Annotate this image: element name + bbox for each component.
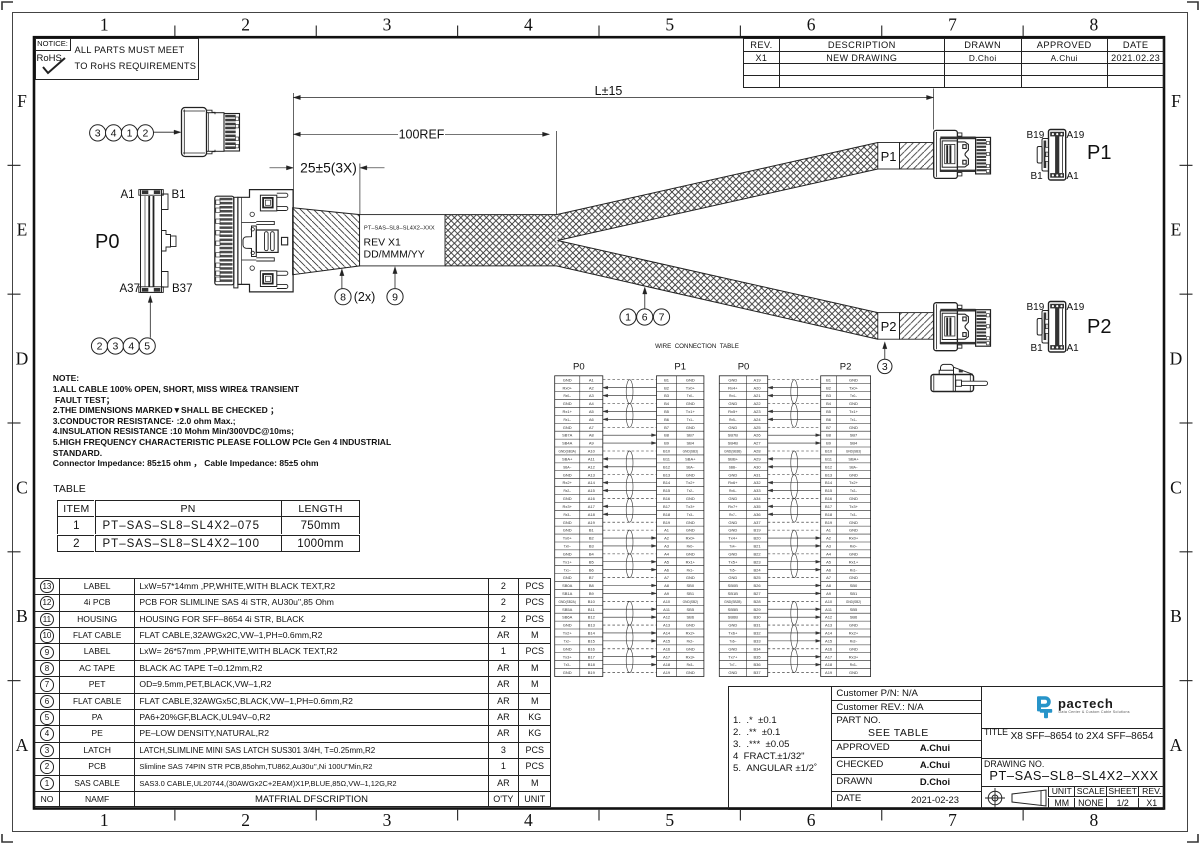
svg-text:Rx0–: Rx0–: [687, 545, 695, 549]
svg-text:A15: A15: [825, 639, 833, 644]
svg-text:A18: A18: [588, 512, 596, 517]
svg-text:B4: B4: [589, 551, 595, 556]
svg-text:E: E: [1171, 220, 1182, 240]
svg-text:Tx1–: Tx1–: [564, 568, 571, 572]
svg-text:SB4: SB4: [687, 441, 695, 446]
pin label B19 (P1): [1027, 130, 1045, 142]
svg-text:D: D: [16, 349, 29, 369]
svg-text:B11: B11: [825, 457, 833, 462]
svg-text:GND: GND: [849, 377, 858, 382]
svg-text:6: 6: [807, 810, 816, 830]
svg-text:SB5B: SB5B: [728, 607, 739, 612]
balloon group 3-4-1-2 with leader: [90, 125, 106, 141]
pin label B1 (P2): [1031, 343, 1043, 355]
svg-text:Rx1–: Rx1–: [687, 568, 695, 572]
svg-text:A9: A9: [589, 441, 595, 446]
svg-text:GND: GND: [686, 551, 695, 556]
svg-text:B2: B2: [589, 536, 595, 541]
balloon 8 (2x) with leader: [335, 289, 351, 305]
wires P0-P2: [768, 380, 821, 673]
svg-text:SB6: SB6: [687, 615, 695, 620]
svg-text:Rx4+: Rx4+: [728, 385, 738, 390]
svg-text:A1: A1: [664, 528, 670, 533]
svg-text:A3: A3: [826, 544, 832, 549]
svg-text:GND(SB3): GND(SB3): [683, 450, 698, 454]
projection symbol: [984, 787, 1054, 809]
svg-text:A29: A29: [753, 457, 761, 462]
svg-text:Tx1+: Tx1+: [849, 409, 859, 414]
svg-text:SB6: SB6: [850, 615, 858, 620]
svg-text:GND: GND: [686, 623, 695, 628]
svg-text:SB4: SB4: [850, 441, 858, 446]
label P1: [1087, 142, 1111, 164]
svg-text:A24: A24: [753, 417, 761, 422]
svg-text:SB1A: SB1A: [562, 591, 573, 596]
svg-text:100REF: 100REF: [399, 127, 445, 141]
svg-text:B13: B13: [663, 472, 671, 477]
svg-text:SB7: SB7: [850, 433, 858, 438]
svg-text:GND(SB3): GND(SB3): [846, 450, 861, 454]
svg-text:GND(SB2A): GND(SB2A): [559, 600, 576, 604]
drawing number field: [984, 759, 1044, 770]
svg-text:A16: A16: [825, 646, 833, 651]
svg-text:SB0A: SB0A: [562, 583, 573, 588]
svg-text:2: 2: [241, 15, 250, 35]
svg-text:A7: A7: [826, 575, 832, 580]
svg-text:SB7: SB7: [687, 433, 695, 438]
svg-text:SB1: SB1: [687, 591, 695, 596]
svg-text:(2x): (2x): [354, 290, 376, 304]
svg-text:P0: P0: [738, 362, 750, 373]
svg-text:A4: A4: [589, 401, 595, 406]
svg-text:A35: A35: [753, 504, 761, 509]
svg-text:A19: A19: [825, 670, 833, 675]
svg-text:7: 7: [659, 312, 665, 324]
svg-text:A28: A28: [753, 449, 761, 454]
pin label A19 (P1): [1067, 130, 1085, 142]
svg-text:B5: B5: [826, 409, 832, 414]
svg-text:A11: A11: [663, 607, 671, 612]
svg-text:GND: GND: [563, 670, 572, 675]
svg-text:B4: B4: [664, 401, 670, 406]
svg-text:P1: P1: [881, 149, 897, 164]
svg-text:A1: A1: [826, 528, 832, 533]
svg-text:1: 1: [100, 15, 109, 35]
svg-text:B19: B19: [588, 670, 596, 675]
svg-text:SB5: SB5: [850, 607, 858, 612]
corner trim marks: [2, 2, 13, 10]
svg-text:A32: A32: [753, 480, 761, 485]
svg-text:GND: GND: [563, 401, 572, 406]
svg-text:B19: B19: [663, 520, 671, 525]
svg-text:GND: GND: [563, 528, 572, 533]
label P0: [95, 231, 119, 253]
svg-text:Rx7+: Rx7+: [728, 504, 738, 509]
svg-text:P0: P0: [573, 362, 585, 373]
svg-text:A26: A26: [753, 433, 761, 438]
svg-text:3: 3: [112, 341, 118, 353]
svg-text:A9: A9: [664, 591, 670, 596]
svg-text:WIRE CONNECTION TABLE: WIRE CONNECTION TABLE: [655, 343, 739, 350]
svg-text:B20: B20: [753, 536, 761, 541]
svg-text:Rx1+: Rx1+: [562, 409, 572, 414]
svg-text:A37: A37: [753, 520, 761, 525]
svg-text:B32: B32: [753, 631, 761, 636]
svg-text:B11: B11: [663, 457, 671, 462]
svg-text:A17: A17: [588, 504, 596, 509]
svg-text:A34: A34: [753, 496, 761, 501]
svg-text:Tx0–: Tx0–: [687, 394, 694, 398]
svg-text:Tx2+: Tx2+: [849, 480, 859, 485]
svg-text:B21: B21: [753, 544, 761, 549]
svg-text:6: 6: [642, 312, 648, 324]
svg-text:B30: B30: [753, 615, 761, 620]
svg-text:Tx3–: Tx3–: [687, 513, 694, 517]
svg-text:25±5(3X): 25±5(3X): [300, 161, 357, 176]
svg-text:Tx2–: Tx2–: [564, 640, 571, 644]
svg-text:B25: B25: [753, 575, 761, 580]
svg-text:B8: B8: [589, 583, 595, 588]
svg-text:Tx1–: Tx1–: [850, 418, 857, 422]
svg-text:L±15: L±15: [595, 84, 623, 98]
svg-text:GND: GND: [563, 496, 572, 501]
svg-text:SBA–: SBA–: [686, 465, 694, 469]
svg-text:GND(SB2): GND(SB2): [683, 600, 698, 604]
pin label A1 (P2): [1067, 343, 1079, 355]
svg-text:C: C: [1170, 477, 1182, 497]
svg-text:Tx1+: Tx1+: [563, 559, 573, 564]
svg-text:B3: B3: [826, 393, 832, 398]
balloon 9 with leader: [387, 289, 403, 305]
svg-text:A36: A36: [753, 512, 761, 517]
svg-text:5: 5: [144, 341, 150, 353]
svg-text:B9: B9: [589, 591, 595, 596]
svg-text:Rx2–: Rx2–: [687, 640, 695, 644]
svg-text:GND: GND: [849, 575, 858, 580]
svg-text:B12: B12: [663, 464, 671, 469]
svg-text:A14: A14: [588, 480, 596, 485]
svg-text:A13: A13: [825, 623, 833, 628]
svg-text:Rx1+: Rx1+: [686, 559, 696, 564]
svg-text:2: 2: [241, 810, 250, 830]
svg-text:SB4B: SB4B: [728, 441, 739, 446]
svg-text:REV X1: REV X1: [364, 237, 402, 249]
connector P2 side view: [934, 303, 991, 351]
svg-text:B17: B17: [825, 504, 833, 509]
svg-text:A1: A1: [589, 377, 595, 382]
connector P0 side view: [215, 196, 234, 285]
svg-text:B5: B5: [664, 409, 670, 414]
svg-text:A19: A19: [588, 520, 596, 525]
svg-text:A5: A5: [826, 559, 832, 564]
connector P2 front view: [1037, 302, 1066, 353]
svg-text:Rx2–: Rx2–: [563, 489, 571, 493]
svg-text:B33: B33: [753, 639, 761, 644]
svg-text:A10: A10: [663, 599, 671, 604]
svg-text:A23: A23: [753, 409, 761, 414]
svg-text:Rx3–: Rx3–: [687, 663, 695, 667]
pin label A19 (P2): [1067, 302, 1085, 314]
svg-text:GND: GND: [728, 520, 737, 525]
svg-text:Tx2+: Tx2+: [563, 631, 573, 636]
svg-text:A7: A7: [589, 425, 595, 430]
svg-text:B6: B6: [589, 567, 595, 572]
svg-text:A15: A15: [588, 488, 596, 493]
svg-text:A33: A33: [753, 488, 761, 493]
svg-text:GND: GND: [686, 401, 695, 406]
svg-text:GND: GND: [563, 520, 572, 525]
svg-text:A4: A4: [664, 551, 670, 556]
svg-text:SB4A: SB4A: [562, 441, 573, 446]
pactech logo: [1036, 695, 1056, 721]
svg-text:A: A: [1170, 735, 1183, 755]
svg-text:5: 5: [665, 810, 674, 830]
svg-text:Rx1+: Rx1+: [849, 559, 859, 564]
svg-text:DD/MMM/YY: DD/MMM/YY: [364, 249, 425, 261]
svg-text:5: 5: [665, 15, 674, 35]
svg-text:GND: GND: [686, 377, 695, 382]
P1 sleeve hatch: [900, 143, 934, 170]
svg-text:A5: A5: [664, 559, 670, 564]
svg-text:A8: A8: [826, 583, 832, 588]
svg-text:GND: GND: [849, 401, 858, 406]
svg-text:Rx0+: Rx0+: [562, 385, 572, 390]
svg-text:Rx6–: Rx6–: [729, 489, 737, 493]
svg-text:A6: A6: [664, 567, 670, 572]
svg-text:SBA+: SBA+: [848, 457, 859, 462]
svg-text:B3: B3: [589, 544, 595, 549]
svg-text:B19: B19: [825, 520, 833, 525]
connector P0 front view: [139, 190, 176, 293]
svg-text:GND: GND: [849, 472, 858, 477]
svg-text:A20: A20: [753, 385, 761, 390]
svg-text:D: D: [1170, 349, 1183, 369]
svg-text:B3: B3: [664, 393, 670, 398]
svg-text:A12: A12: [663, 615, 671, 620]
svg-text:GND: GND: [686, 496, 695, 501]
svg-text:SBA–: SBA–: [849, 465, 857, 469]
svg-text:Tx3–: Tx3–: [564, 663, 571, 667]
svg-text:Rx7–: Rx7–: [729, 513, 737, 517]
svg-text:Tx1–: Tx1–: [687, 418, 694, 422]
svg-text:B10: B10: [588, 599, 596, 604]
svg-text:A11: A11: [825, 607, 833, 612]
svg-text:B24: B24: [753, 567, 761, 572]
svg-text:B15: B15: [663, 488, 671, 493]
cable label box with part number: [360, 215, 445, 266]
svg-text:GND: GND: [728, 496, 737, 501]
svg-text:B16: B16: [825, 496, 833, 501]
svg-text:B37: B37: [753, 670, 761, 675]
svg-text:B18: B18: [588, 662, 596, 667]
svg-text:A30: A30: [753, 464, 761, 469]
svg-text:Rx6+: Rx6+: [728, 480, 738, 485]
svg-text:A17: A17: [663, 654, 671, 659]
svg-text:B23: B23: [753, 559, 761, 564]
svg-text:GND: GND: [686, 646, 695, 651]
svg-text:B9: B9: [664, 441, 670, 446]
svg-text:Rx2+: Rx2+: [686, 631, 696, 636]
pin label A1 (P0): [121, 189, 135, 203]
svg-text:A16: A16: [663, 646, 671, 651]
svg-text:GND: GND: [563, 646, 572, 651]
svg-text:A2: A2: [826, 536, 832, 541]
svg-text:Tx3–: Tx3–: [850, 513, 857, 517]
svg-text:SB6B: SB6B: [728, 615, 739, 620]
svg-text:SB7B: SB7B: [728, 433, 739, 438]
svg-text:GND: GND: [849, 425, 858, 430]
svg-text:SB0: SB0: [850, 583, 858, 588]
svg-text:A5: A5: [589, 409, 595, 414]
svg-text:B14: B14: [588, 631, 596, 636]
svg-text:B17: B17: [663, 504, 671, 509]
svg-text:B27: B27: [753, 591, 761, 596]
svg-text:3: 3: [95, 128, 101, 140]
P2 label box: [878, 313, 900, 340]
svg-text:B19: B19: [753, 528, 761, 533]
dimension 100REF: [293, 133, 549, 135]
svg-text:Rx1–: Rx1–: [563, 418, 571, 422]
svg-text:Tx2+: Tx2+: [686, 480, 696, 485]
title field: [984, 727, 1008, 738]
svg-text:GND: GND: [686, 472, 695, 477]
svg-text:A25: A25: [753, 425, 761, 430]
pin label B1 (P0): [172, 189, 186, 203]
svg-text:Tx5–: Tx5–: [729, 568, 736, 572]
wires P0-P1: [603, 380, 657, 673]
svg-text:Rx2+: Rx2+: [849, 631, 859, 636]
cable sleeve section near P0 (diagonal hatch): [293, 208, 360, 275]
svg-text:A7: A7: [664, 575, 670, 580]
svg-text:A4: A4: [826, 551, 832, 556]
connector P1 side view: [934, 130, 991, 178]
svg-text:GND: GND: [563, 575, 572, 580]
svg-text:B5: B5: [589, 559, 595, 564]
bill of materials table: [34, 578, 59, 594]
svg-text:B35: B35: [753, 654, 761, 659]
dimension L±15: [293, 97, 933, 99]
svg-text:A18: A18: [663, 662, 671, 667]
svg-text:4: 4: [524, 810, 533, 830]
svg-text:4: 4: [524, 15, 533, 35]
svg-text:A18: A18: [825, 662, 833, 667]
svg-text:PT–SAS–SL8–SL4X2–XXX: PT–SAS–SL8–SL4X2–XXX: [364, 226, 435, 232]
svg-text:B15: B15: [825, 488, 833, 493]
svg-text:SB0B: SB0B: [728, 583, 739, 588]
svg-text:P2: P2: [840, 362, 852, 373]
svg-text:SB6A: SB6A: [562, 615, 573, 620]
cable upper branch to P1: [557, 143, 878, 241]
svg-text:Rx3+: Rx3+: [849, 654, 859, 659]
svg-text:B7: B7: [826, 425, 832, 430]
svg-text:SBA+: SBA+: [562, 457, 573, 462]
svg-text:B31: B31: [753, 623, 761, 628]
svg-text:Tx5+: Tx5+: [728, 559, 738, 564]
svg-text:B10: B10: [663, 449, 671, 454]
svg-text:B7: B7: [664, 425, 670, 430]
svg-text:2: 2: [97, 341, 103, 353]
svg-text:8: 8: [1089, 15, 1098, 35]
svg-text:P2: P2: [881, 319, 897, 334]
svg-text:GND: GND: [849, 520, 858, 525]
svg-text:Tx0+: Tx0+: [849, 385, 859, 390]
svg-text:C: C: [16, 477, 28, 497]
pin label B1 (P1): [1031, 171, 1043, 183]
title block middle column: [831, 686, 980, 700]
svg-text:Tx0+: Tx0+: [686, 385, 696, 390]
svg-text:B8: B8: [826, 433, 832, 438]
svg-text:A: A: [16, 735, 29, 755]
svg-text:SB0: SB0: [687, 583, 695, 588]
svg-text:B: B: [16, 606, 28, 626]
svg-text:Tx0–: Tx0–: [850, 394, 857, 398]
wire table P0 (group 2): [719, 376, 767, 677]
svg-text:GND: GND: [563, 377, 572, 382]
svg-text:A19: A19: [663, 670, 671, 675]
pin label B19 (P2): [1027, 302, 1045, 314]
svg-text:7: 7: [948, 15, 957, 35]
latch pull tab part below P2: [931, 364, 988, 391]
svg-text:GND: GND: [849, 528, 858, 533]
svg-text:GND: GND: [849, 623, 858, 628]
svg-text:A10: A10: [588, 449, 596, 454]
svg-text:A27: A27: [753, 441, 761, 446]
svg-text:Tx0+: Tx0+: [563, 536, 573, 541]
svg-text:SB1: SB1: [850, 591, 858, 596]
svg-text:B15: B15: [588, 639, 596, 644]
svg-text:SB1B: SB1B: [728, 591, 739, 596]
svg-text:4: 4: [111, 128, 117, 140]
cable lower branch to P2: [557, 241, 878, 340]
svg-text:SBB–: SBB–: [729, 465, 737, 469]
svg-text:Tx4+: Tx4+: [728, 536, 738, 541]
svg-text:Tx3+: Tx3+: [563, 654, 573, 659]
svg-text:A12: A12: [588, 464, 596, 469]
svg-text:A21: A21: [753, 393, 761, 398]
svg-text:B14: B14: [663, 480, 671, 485]
svg-text:GND: GND: [728, 670, 737, 675]
svg-text:SBA–: SBA–: [563, 465, 571, 469]
svg-text:A19: A19: [753, 377, 761, 382]
svg-text:B14: B14: [825, 480, 833, 485]
svg-text:E: E: [17, 220, 28, 240]
svg-text:B12: B12: [588, 615, 596, 620]
svg-text:A31: A31: [753, 472, 761, 477]
svg-text:3: 3: [383, 810, 392, 830]
svg-text:Tx2–: Tx2–: [687, 489, 694, 493]
svg-text:B12: B12: [825, 464, 833, 469]
svg-text:B10: B10: [825, 449, 833, 454]
svg-text:A22: A22: [753, 401, 761, 406]
svg-text:A14: A14: [825, 631, 833, 636]
svg-text:GND: GND: [849, 646, 858, 651]
svg-text:Tx7–: Tx7–: [729, 663, 736, 667]
svg-text:1: 1: [100, 810, 109, 830]
svg-text:B8: B8: [664, 433, 670, 438]
svg-text:GND: GND: [686, 520, 695, 525]
svg-text:A12: A12: [825, 615, 833, 620]
unit scale sheet rev subtable: [1048, 786, 1074, 797]
part number table: [53, 483, 85, 496]
svg-text:GND: GND: [563, 472, 572, 477]
svg-text:B9: B9: [826, 441, 832, 446]
balloon group 2-3-4-5 with leader: [91, 338, 107, 354]
svg-text:Rx4–: Rx4–: [729, 394, 737, 398]
svg-text:B36: B36: [753, 662, 761, 667]
svg-text:6: 6: [807, 15, 816, 35]
svg-text:A17: A17: [825, 654, 833, 659]
svg-text:8: 8: [340, 291, 346, 303]
